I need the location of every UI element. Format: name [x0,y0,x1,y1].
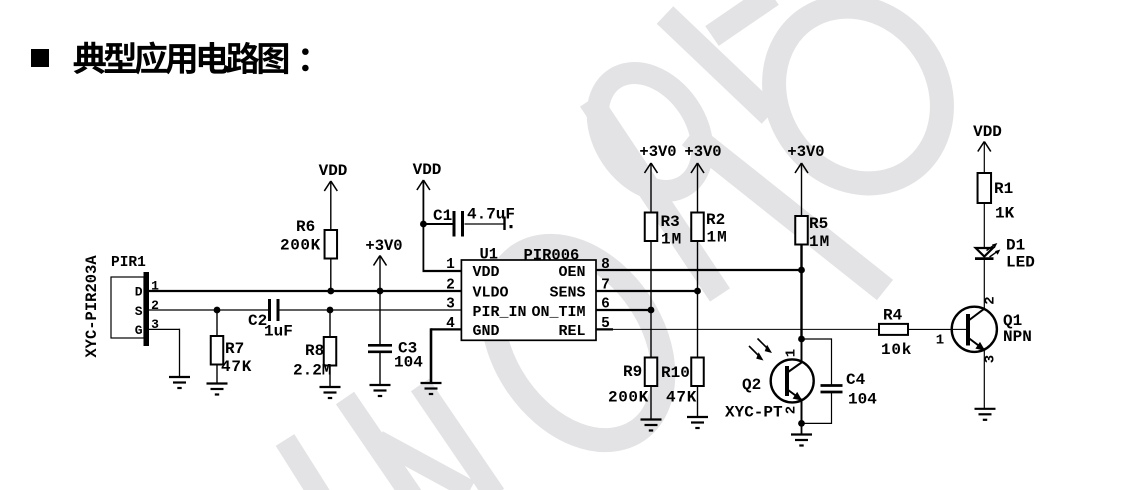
svg-text:VLDO: VLDO [473,285,509,302]
wire R2 to R10 [697,241,699,358]
capacitor C3 104 [368,344,392,347]
svg-text:Q2: Q2 [742,376,761,394]
wire R10 bottom [697,386,699,417]
ground (R8) [320,386,341,388]
wire R4 to Q1 base (thin) [908,328,952,330]
svg-text:1M: 1M [661,231,682,249]
svg-text:R2: R2 [706,211,725,229]
node Q2 collector / C4 junction [798,336,805,343]
wire REL (pin5) stub [596,328,613,330]
svg-text:47K: 47K [221,358,252,376]
ground (R7) [207,382,228,384]
svg-text:47K: 47K [666,389,697,407]
node OEN junction [798,267,805,274]
svg-text:REL: REL [558,323,585,340]
svg-text:R7: R7 [225,340,244,358]
svg-text:ON_TIM: ON_TIM [531,304,585,321]
svg-text:+3V0: +3V0 [365,237,402,255]
node S/R7 junction [214,307,221,314]
resistor R5 [795,216,808,245]
wire R8 bottom [329,366,331,388]
svg-text:2: 2 [784,406,800,414]
resistor R7 [211,336,224,365]
svg-text:1uF: 1uF [264,323,293,341]
capacitor C4 104 [802,338,832,340]
wire R7 bottom [216,365,218,384]
wire ON_TIM (pin6) to R3/R9 [596,309,651,311]
resistor R2 [691,213,704,242]
svg-text:1: 1 [784,349,800,357]
wire VDD down to U1 pin1 [422,180,424,272]
ground (Q2) [801,423,803,434]
resistor R3 [645,213,658,242]
Q2 light arrows [749,346,761,358]
svg-text:PIR_IN: PIR_IN [473,304,527,321]
wire R6 bottom [330,259,332,292]
svg-text:+3V0: +3V0 [787,143,824,161]
diode D1 LED [975,237,1035,272]
svg-text:R3: R3 [661,213,680,231]
svg-text:2.2M: 2.2M [293,362,331,380]
title bullet square [31,49,49,67]
wire VDD to R6 [330,181,332,230]
node Q2 emitter / C4 junction [798,420,805,427]
svg-text:2: 2 [151,298,159,313]
capacitor C2 1uF (series) [268,299,271,321]
wire R1 to LED [983,203,985,248]
resistor R6 [325,230,338,259]
capacitor C1 4.7uF [453,211,456,237]
svg-text:C4: C4 [846,371,866,389]
wire R5 down to Q2 collector [800,245,802,340]
title text [74,41,309,74]
ground (C3) [370,384,391,386]
wire R9 bottom [650,386,652,420]
svg-text:1K: 1K [995,205,1015,223]
svg-text:R1: R1 [994,180,1013,198]
resistor R10 [691,358,704,387]
wire U1 GND to ground [431,328,461,330]
svg-text:LED: LED [1006,254,1035,272]
svg-text:VDD: VDD [413,161,442,179]
ground (R10) [687,416,708,418]
resistor R4 [879,324,908,335]
wire G (pin3) down [149,328,180,330]
svg-text:2: 2 [982,296,998,304]
svg-text:4.7uF: 4.7uF [467,206,515,224]
connector PIR1 (XYC-PIR203A) [83,255,159,358]
svg-text:R8: R8 [305,342,324,360]
svg-text:U1: U1 [480,246,499,264]
svg-text:PIR1: PIR1 [111,255,146,271]
transistor Q1 NPN [936,259,1032,409]
wire C3 bottom [379,352,381,385]
svg-text:R10: R10 [661,364,690,382]
wire OEN (pin8) to R5 line [596,269,802,271]
svg-text:R6: R6 [296,218,315,236]
svg-text:104: 104 [394,354,423,372]
svg-text:1: 1 [936,333,944,349]
svg-text:GND: GND [473,323,500,340]
svg-text:10k: 10k [881,341,912,359]
wire R7 top [216,310,218,336]
svg-text:+3V0: +3V0 [639,143,676,161]
ground (Q1) [975,408,996,410]
svg-text:XYC-PT: XYC-PT [725,404,783,422]
node VDD/C1 junction [420,221,427,228]
terminal stub (C1 right) [503,217,505,231]
svg-text:OEN: OEN [558,264,585,281]
wire +3V0 down to C3 [379,256,381,346]
wire C1 right [465,223,504,225]
wire R3 to R9 [650,241,652,358]
svg-text:D1: D1 [1006,237,1025,255]
svg-text:3: 3 [983,355,999,363]
svg-text:D: D [135,284,143,299]
wire C2 to U1 PIR_IN [280,309,462,311]
svg-text:SENS: SENS [549,285,585,302]
wire R8 top [329,310,331,337]
wire S (pin2) to C2 [149,309,268,311]
node SENS junction [694,288,701,295]
svg-text:C1: C1 [433,207,452,225]
node D/R6 junction [327,288,334,295]
svg-text:3: 3 [446,297,455,313]
svg-text:104: 104 [848,391,877,409]
svg-text:200K: 200K [280,237,321,255]
transistor Q2 (phototransistor XYC-PT) [725,339,814,424]
svg-text:G: G [135,323,143,338]
svg-text:R4: R4 [883,307,903,325]
node D/+3V0 junction [377,288,384,295]
wire REL to R4 (thin) [613,328,879,330]
svg-text:2: 2 [446,278,455,294]
node ON_TIM junction [648,307,655,314]
svg-text:VDD: VDD [319,162,348,180]
svg-text:S: S [135,304,143,319]
wire D (pin1) to U1 VLDO [149,290,461,292]
svg-text:R5: R5 [809,215,828,233]
ground (U1 GND) [421,382,442,384]
svg-text:1M: 1M [707,229,728,247]
ground (R9) [641,418,662,420]
wire SENS (pin7) to R2/R10 [596,290,698,292]
svg-text:NPN: NPN [1003,328,1032,346]
resistor R9 [645,358,658,387]
svg-text:VDD: VDD [473,264,500,281]
ground (connector G) [169,376,190,378]
IC U1 PIR006 [461,260,596,340]
svg-text:VDD: VDD [973,123,1002,141]
svg-text:1: 1 [446,257,455,273]
resistor R8 [324,337,337,366]
svg-text:PIR006: PIR006 [524,247,580,265]
resistor R1 [978,173,992,203]
svg-text:200K: 200K [608,389,649,407]
svg-text:1M: 1M [809,233,830,251]
svg-text:+3V0: +3V0 [684,143,721,161]
svg-text:XYC-PIR203A: XYC-PIR203A [83,255,101,358]
wire C1 left [423,223,452,225]
node S/R8 junction [327,307,334,314]
svg-text:R9: R9 [623,363,642,381]
watermark "SUN OPTO" (light gray, diagonal) [285,0,976,490]
